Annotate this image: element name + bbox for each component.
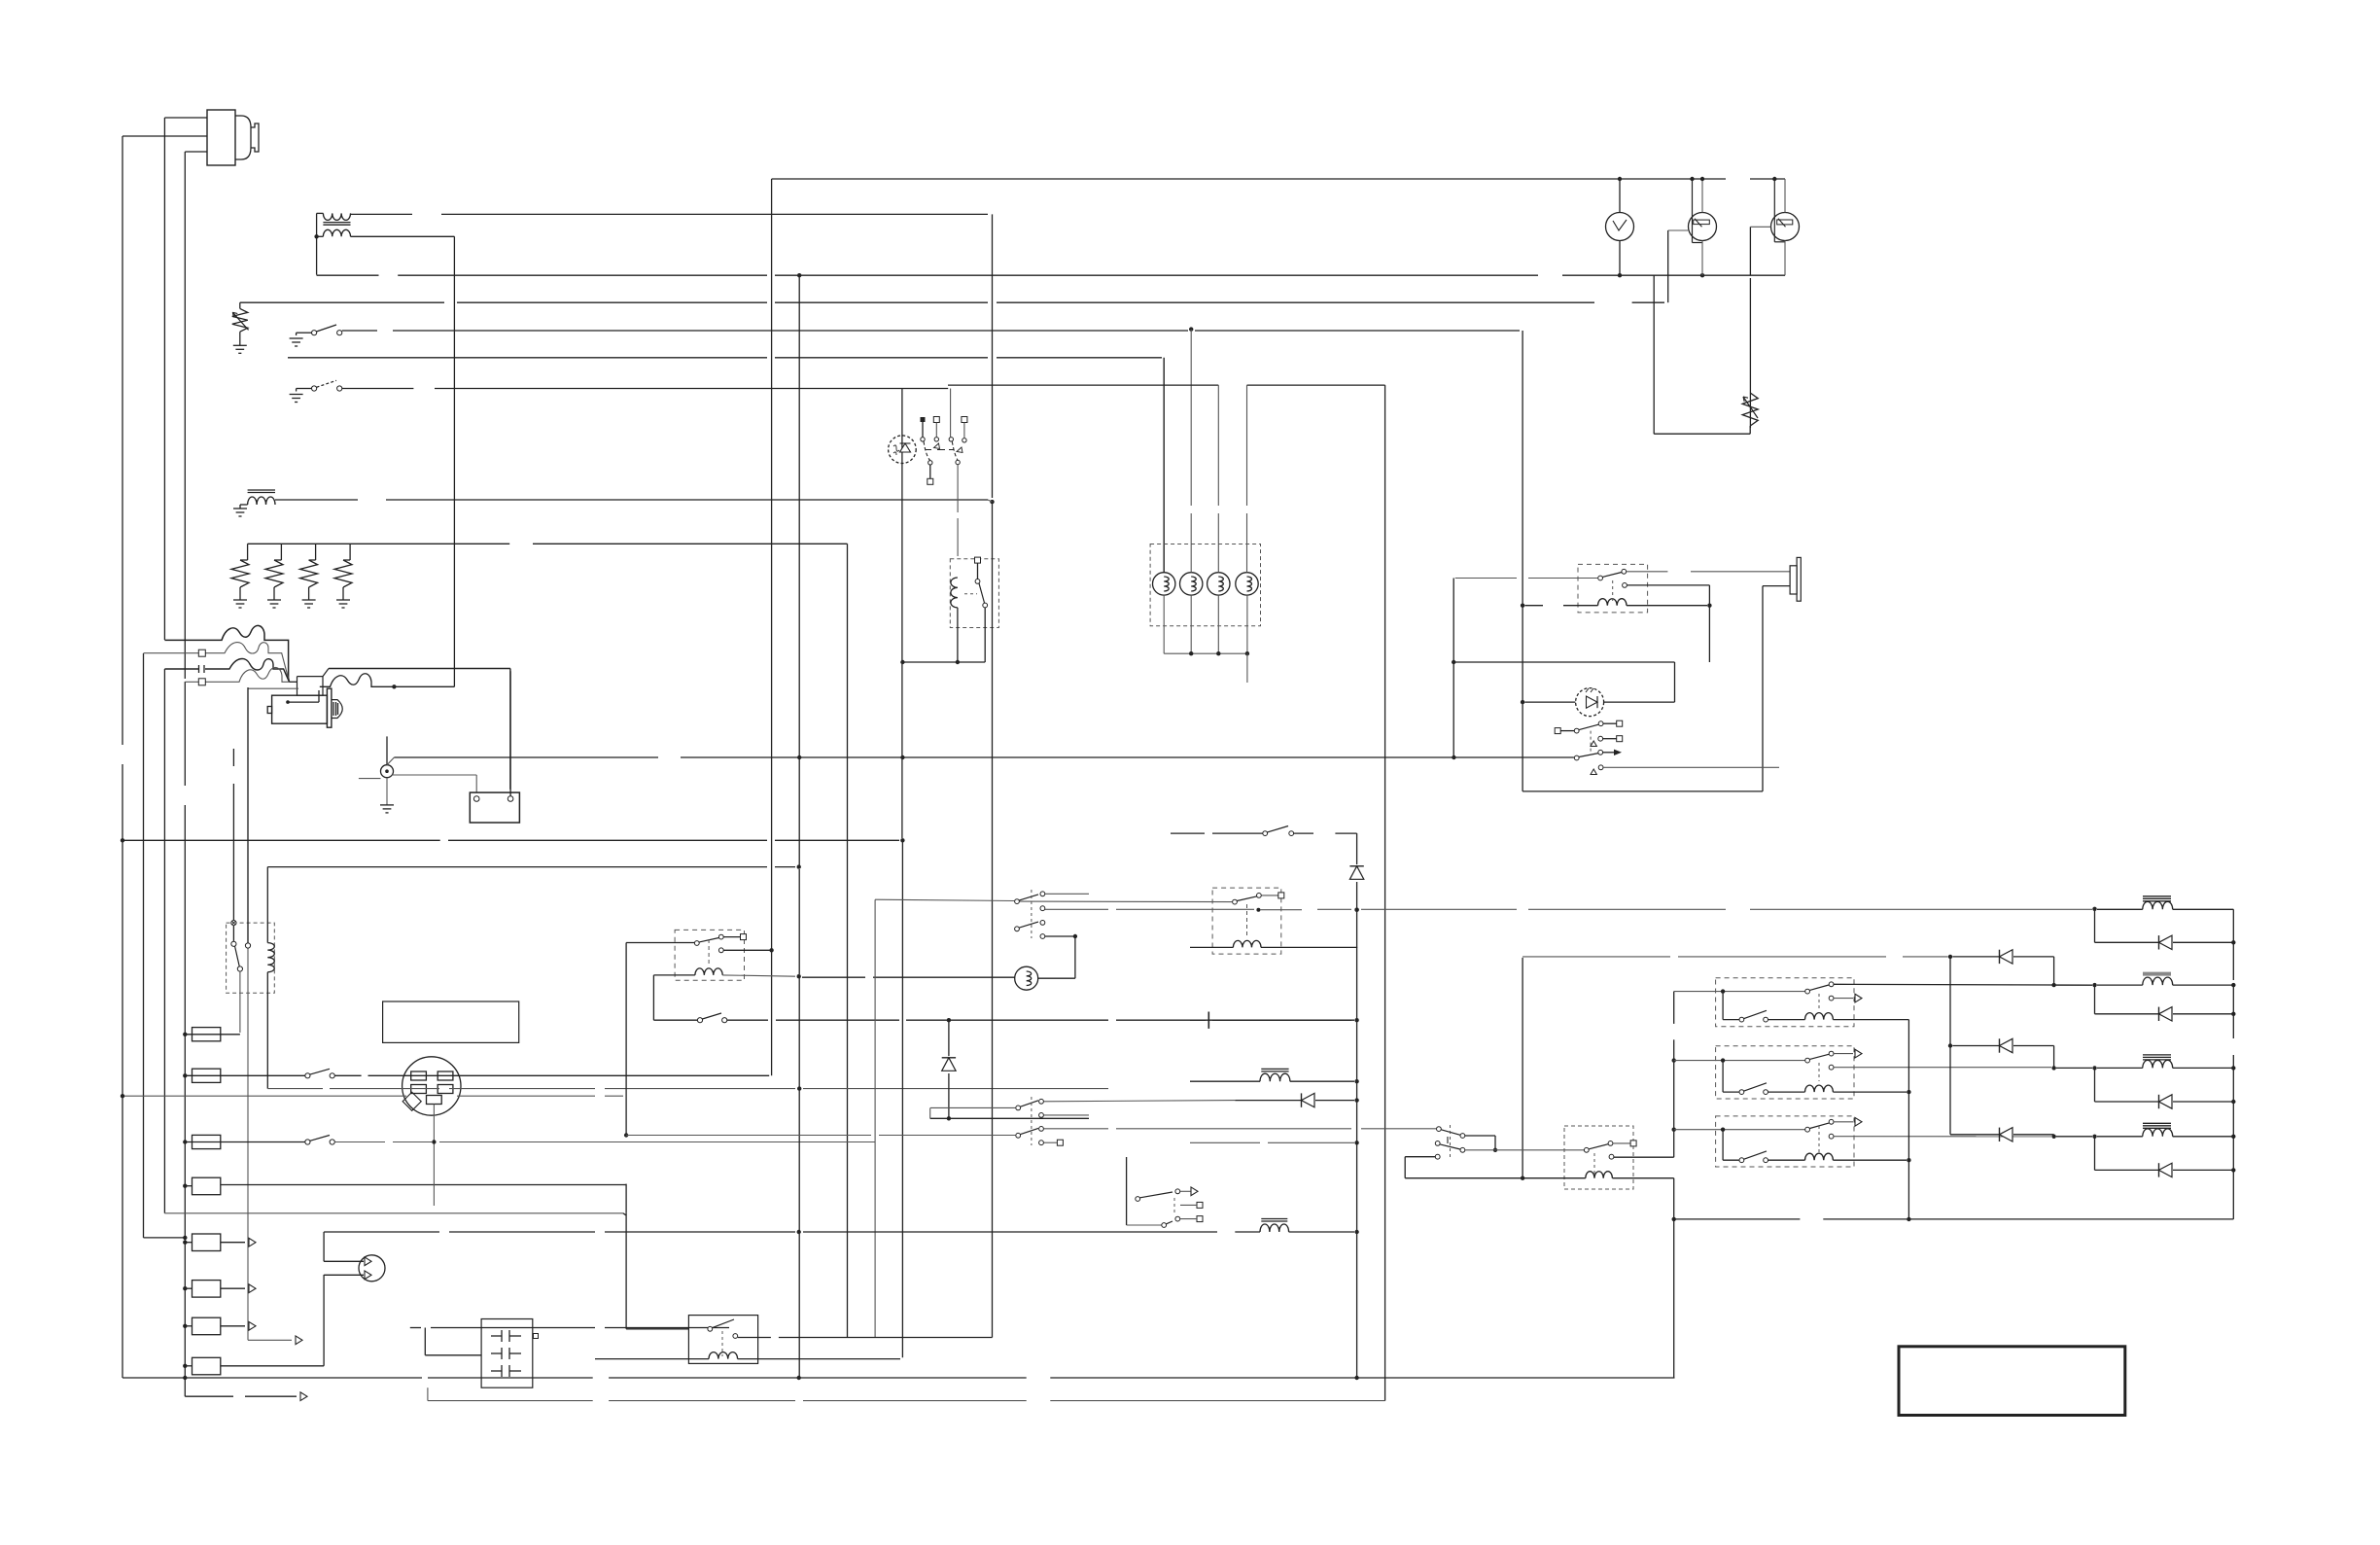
- net y=1119.6: [267, 1088, 323, 1090]
- horn relay R5 box (dashed): [1578, 564, 1648, 613]
- rail V4 x=190.3: [184, 152, 186, 679]
- glow plug resistor 3: [315, 544, 317, 560]
- wiper switch box 2 (dashed): [1716, 1046, 1854, 1099]
- trailer connector box: [481, 1319, 533, 1388]
- row4 flyback diode loop: [2094, 1137, 2096, 1171]
- fuse F3: [192, 1135, 221, 1148]
- net y=1417 big bottom bus right part: [681, 1377, 1027, 1379]
- parking brake switch SW2: [290, 394, 303, 396]
- row2 coil: [2143, 972, 2171, 976]
- warning lamp bulb 2: [1180, 573, 1203, 595]
- row2 flyback diode loop: [2094, 985, 2096, 1014]
- heater switch cluster SW7: [1016, 1106, 1021, 1110]
- fuse F6: [192, 1281, 221, 1298]
- junction lamp2 drop: [1189, 327, 1193, 331]
- relay R7 box solid: [688, 1316, 757, 1364]
- rail V4 bottom arrow: [185, 1395, 233, 1397]
- ignition coil T2 (alternator exciter coil): [248, 489, 275, 491]
- solenoid bank coil rail x=1963.4: [1907, 1020, 1909, 1219]
- lamp L2 right to x=1105.9: [1038, 977, 1075, 979]
- rail V1 x=126 (battery - feed): [122, 136, 123, 745]
- wire RB pivot feed: [1019, 900, 1232, 903]
- diode bank left D-L1: [1952, 956, 1999, 958]
- horn relay coil: [1598, 599, 1627, 606]
- switch SW9 lower: [1437, 1127, 1442, 1132]
- relay RA coil: [695, 968, 722, 975]
- glow plug resistor 4: [349, 544, 351, 560]
- horn cone: [235, 116, 251, 159]
- relay R7 contact arm: [708, 1326, 713, 1331]
- wiper switch box 1 (dashed): [1716, 978, 1854, 1027]
- diode bank left D-L3: [1950, 1134, 1999, 1136]
- relay R4 bottom bus y=681: [902, 661, 985, 663]
- net y=1150: [930, 1117, 1089, 1119]
- rail V2 x=147.5: [143, 653, 145, 1238]
- net y=1004 lamp feed: [802, 976, 865, 978]
- cigarette lighter: [359, 1255, 385, 1282]
- temp gauge: [1771, 213, 1800, 241]
- connector tail: [433, 1105, 435, 1142]
- row4 coil: [2143, 1122, 2171, 1124]
- bulb 4 feed from right net y=396: [1247, 384, 1385, 386]
- wire w3 to solenoid: [164, 659, 289, 683]
- relay R3 coil: [247, 687, 249, 770]
- wire ignition sw to relay R4: [957, 465, 959, 512]
- wiper switch box 3 (dashed): [1716, 1116, 1854, 1167]
- bus corner up x=1721.7 to relay R8: [1673, 1178, 1675, 1378]
- wire w4 to solenoid: [185, 667, 289, 682]
- relay RC2 in box2: [1805, 1058, 1810, 1063]
- relay RA pivot feed: [626, 942, 694, 944]
- glow plug resistor 1: [247, 544, 249, 560]
- relay RC1 in box1: [1805, 989, 1810, 994]
- ground: temp sensor: [233, 344, 247, 346]
- relay R7 feed wire from y=1248: [623, 1213, 626, 1215]
- capacitor tick and net y=1049 left part: [1190, 1019, 1206, 1021]
- rail x=1721.7: [1673, 992, 1675, 1024]
- bus y=864 ground distribution: [122, 839, 440, 841]
- relay R8 contact: [1465, 1149, 1584, 1151]
- ground: alternator: [380, 804, 394, 806]
- starter motor body: [272, 695, 328, 723]
- ignition coil T1 primary winding: [323, 213, 350, 220]
- fuse F8: [192, 1357, 221, 1375]
- net y=184 main feed to gauges: [772, 178, 1726, 180]
- junction y=283 x=822: [797, 273, 801, 277]
- bulb mini-bus: [1164, 652, 1247, 654]
- turn signal switch SW10: [1555, 728, 1560, 734]
- net fuse F4 feed line y=1218: [221, 1184, 623, 1186]
- battery terminal +: [473, 796, 479, 802]
- wiper feed lines: [1674, 991, 1805, 993]
- wire w1 battery cable to starter solenoid: [164, 625, 289, 682]
- net fuse F3 line y=1174 with switch: [305, 1140, 310, 1144]
- relay R4 box (dashed): [950, 559, 998, 628]
- row3 flyback diode loop: [2094, 1068, 2096, 1102]
- net y=399 brake sw output: [342, 388, 414, 390]
- ground: coil T2: [233, 508, 247, 509]
- trailer feed wires: [425, 1354, 481, 1356]
- wire rail V2 to F5 row: [144, 1237, 186, 1239]
- ignition coil T1 core: [323, 222, 350, 224]
- row3 coil: [2143, 1054, 2171, 1056]
- ignition coil T1 secondary winding: [323, 229, 350, 236]
- relay R8 box (dashed): [1564, 1126, 1633, 1189]
- bulb bottom drops to mini-bus y=672.2: [1163, 595, 1165, 653]
- junction coil T1 left: [314, 234, 318, 238]
- net y=514-516 to rail: [988, 500, 993, 502]
- ignition switch assembly: [921, 417, 926, 422]
- engine temp sensor (variable resistor): [239, 302, 241, 308]
- indicator loop y=681: [1453, 661, 1674, 663]
- wire coil left drop to switch: [652, 975, 654, 1020]
- wire sw7 outputs: [1044, 1101, 1236, 1102]
- window solenoid row1 coil: [2143, 895, 2171, 897]
- horn (right): [1790, 566, 1797, 594]
- diode D1 on x=975.9: [948, 1020, 950, 1056]
- bulb cluster dashed box: [1150, 544, 1260, 626]
- net y=283 (ignition feed bus): [317, 274, 379, 276]
- warning lamp bulb 4: [1236, 573, 1258, 595]
- net y=1267 accessory feed: [324, 1231, 439, 1233]
- main connector circle: [402, 1057, 461, 1115]
- coil T4 on accessory line: [1261, 1218, 1287, 1220]
- wire rail V3 to feed y=1248: [164, 1212, 623, 1214]
- wire sw6 pivot1 feed: [875, 899, 1015, 900]
- charge warning lamp: [889, 436, 917, 464]
- connector pins: [411, 1071, 427, 1080]
- junction y=283 voltmeter: [1618, 273, 1622, 277]
- bottom bus y=1417 left part: [122, 1377, 422, 1379]
- ECU box: [383, 1001, 519, 1042]
- starter solenoid: [290, 681, 297, 683]
- wire: coil T1 left link: [317, 212, 324, 214]
- alternator pickup: [386, 736, 388, 764]
- starter motor end bell: [332, 700, 342, 719]
- wire: y=221 corner down x=1020.5: [992, 214, 994, 498]
- relay RB contact: [1233, 899, 1238, 904]
- warning lamp bulb 1: [1153, 573, 1175, 595]
- net y=934.8 long to solenoid bank row1: [1045, 908, 1108, 910]
- switch SW8 with line y=857: [1171, 832, 1205, 834]
- left diode feed rail x=2006: [1949, 957, 1951, 1135]
- wire: x=240 feed to relay R3: [232, 749, 234, 766]
- top right resistor: [1653, 275, 1655, 434]
- diode D3 pointing left on net y=1131.6: [1235, 1100, 1302, 1102]
- toggle in box3: [1721, 1128, 1725, 1132]
- voltmeter gauge: [1606, 213, 1634, 241]
- horn relay pivot feed: [1455, 578, 1517, 579]
- switch cluster SW6 (upper right of B3): [1015, 899, 1020, 904]
- long rail x=1424.6: [1384, 385, 1386, 1401]
- battery box: [470, 792, 519, 823]
- wire: solenoid pin to x=255 rail: [248, 687, 298, 689]
- wire: gauge2 riser x=1715.7: [1667, 230, 1669, 302]
- wire: coil T1 primary output y=221 to ignition switch column: [351, 213, 413, 215]
- wire: horn feed bottom from rail x190: [185, 151, 207, 153]
- net y=1127.2: [122, 1095, 406, 1097]
- turn hazard LED: [1576, 688, 1604, 717]
- lamp L2 (indicator): [1015, 966, 1038, 990]
- wire F8 to lighter: [221, 1365, 324, 1367]
- net y=1175 gray: [1190, 1141, 1260, 1143]
- long rail x=822: [798, 275, 800, 755]
- wire: coil T1 secondary y=243 to battery + column: [351, 235, 455, 237]
- junction y=283 fuel gauge: [1700, 273, 1704, 277]
- solenoid B+ terminal wire with loop to x=464 and battery: [320, 674, 455, 687]
- glow plug bus y=559: [248, 543, 510, 544]
- wire: horn feed top from rail x169: [164, 117, 207, 119]
- horn (speaker) body: [207, 110, 235, 165]
- battery terminal -: [507, 796, 513, 802]
- relay R4 coil: [951, 578, 958, 608]
- legend box (bold): [1899, 1347, 2125, 1416]
- horn feed wires: [1627, 571, 1667, 573]
- relay R3 box (dashed): [227, 923, 275, 993]
- wire sw7 pivot feeds: [626, 1135, 871, 1137]
- relay R4 contact: [975, 557, 981, 563]
- oil pressure switch SW1: [290, 337, 303, 339]
- wire: lamp1 drop x=1197: [1163, 358, 1165, 573]
- rail V3 x=169.4: [163, 118, 165, 640]
- connector w2: [198, 650, 205, 656]
- main harness bus y=779: [394, 756, 658, 758]
- fuse F7: [192, 1317, 221, 1335]
- net y=892 to x=822: [267, 866, 767, 868]
- net y=340 oil sw output: [342, 330, 377, 332]
- long rail x=793: [771, 179, 773, 1075]
- relay RB box (dashed): [1212, 888, 1281, 954]
- toggle in box2: [1721, 1058, 1725, 1062]
- horn relay contact: [1598, 576, 1603, 580]
- glow bus corner x=871.5 down: [847, 544, 849, 1337]
- wire w2 to solenoid: [144, 643, 290, 683]
- net y=368 lamp1 feed: [288, 357, 767, 359]
- bulb 2 feed: [1190, 330, 1192, 506]
- fuel gauge: [1689, 213, 1717, 241]
- relay RB coil: [1233, 940, 1261, 947]
- box rectangle right: [1762, 586, 1764, 791]
- relay R7 coil: [709, 1352, 738, 1359]
- net fuse F2 line y=1106 with switch: [305, 1073, 310, 1078]
- starter motor small mount: [267, 707, 271, 714]
- switch SW11 pair near x=1160-1230: [1126, 1157, 1128, 1225]
- net y=311 sensor output: [240, 301, 444, 303]
- glow plug resistor 2: [280, 544, 282, 560]
- starter motor flange: [327, 688, 332, 727]
- long rail x=928 charge lamp circuit: [901, 389, 903, 661]
- row1 flyback diode loop: [2094, 909, 2096, 942]
- rail x=255 bottom arrow: [248, 1339, 292, 1341]
- relay R3 coil feed from y=892: [266, 867, 268, 943]
- gauge3 feed riser x=1800: [1749, 227, 1751, 275]
- trailer pins: [491, 1335, 502, 1337]
- relay RA contact arm: [694, 941, 699, 946]
- warning lamp bulb 3: [1207, 573, 1230, 595]
- wire: horn feed mid from rail x126: [122, 135, 207, 137]
- bulb 3 feed from net y=396: [948, 384, 1218, 386]
- net y=1218 corner: [623, 1184, 626, 1186]
- wire: battery+ vertical x=464: [453, 236, 455, 686]
- switch SW5: [697, 1018, 702, 1023]
- starter armature terminal: [286, 700, 290, 704]
- fuse F4: [192, 1177, 221, 1195]
- fuse F1: [192, 1028, 221, 1041]
- net y=1440.6 lower bus: [428, 1400, 593, 1402]
- net y=1049 to diode and C-area: [727, 1019, 768, 1021]
- net y=514 coil T2 output: [275, 499, 358, 501]
- toggle in box1: [1721, 989, 1725, 993]
- diode bank left D-L2: [1952, 1045, 1999, 1047]
- relay RC3 in box3: [1805, 1127, 1810, 1132]
- fuse F5: [192, 1234, 221, 1251]
- relay R3 contact: [231, 921, 236, 926]
- diode D2 on x=1395.6: [1356, 833, 1358, 864]
- net y=722.1 through LED: [1525, 701, 1576, 703]
- relay R8 coil line y=1211.7: [1586, 1172, 1613, 1178]
- relay RA box: [675, 930, 744, 980]
- net y=984 from box rail: [1522, 956, 1670, 958]
- fuse F2: [192, 1069, 221, 1082]
- ignition coil T3: [1261, 1068, 1288, 1070]
- wire: starter top jumper y=687 to x=525: [329, 669, 510, 790]
- long rail x=1021: [992, 502, 994, 1338]
- return bus y=1253.9: [1675, 1218, 1801, 1220]
- wire sw6 outputs: [1045, 893, 1089, 895]
- alternator leads: [387, 757, 394, 765]
